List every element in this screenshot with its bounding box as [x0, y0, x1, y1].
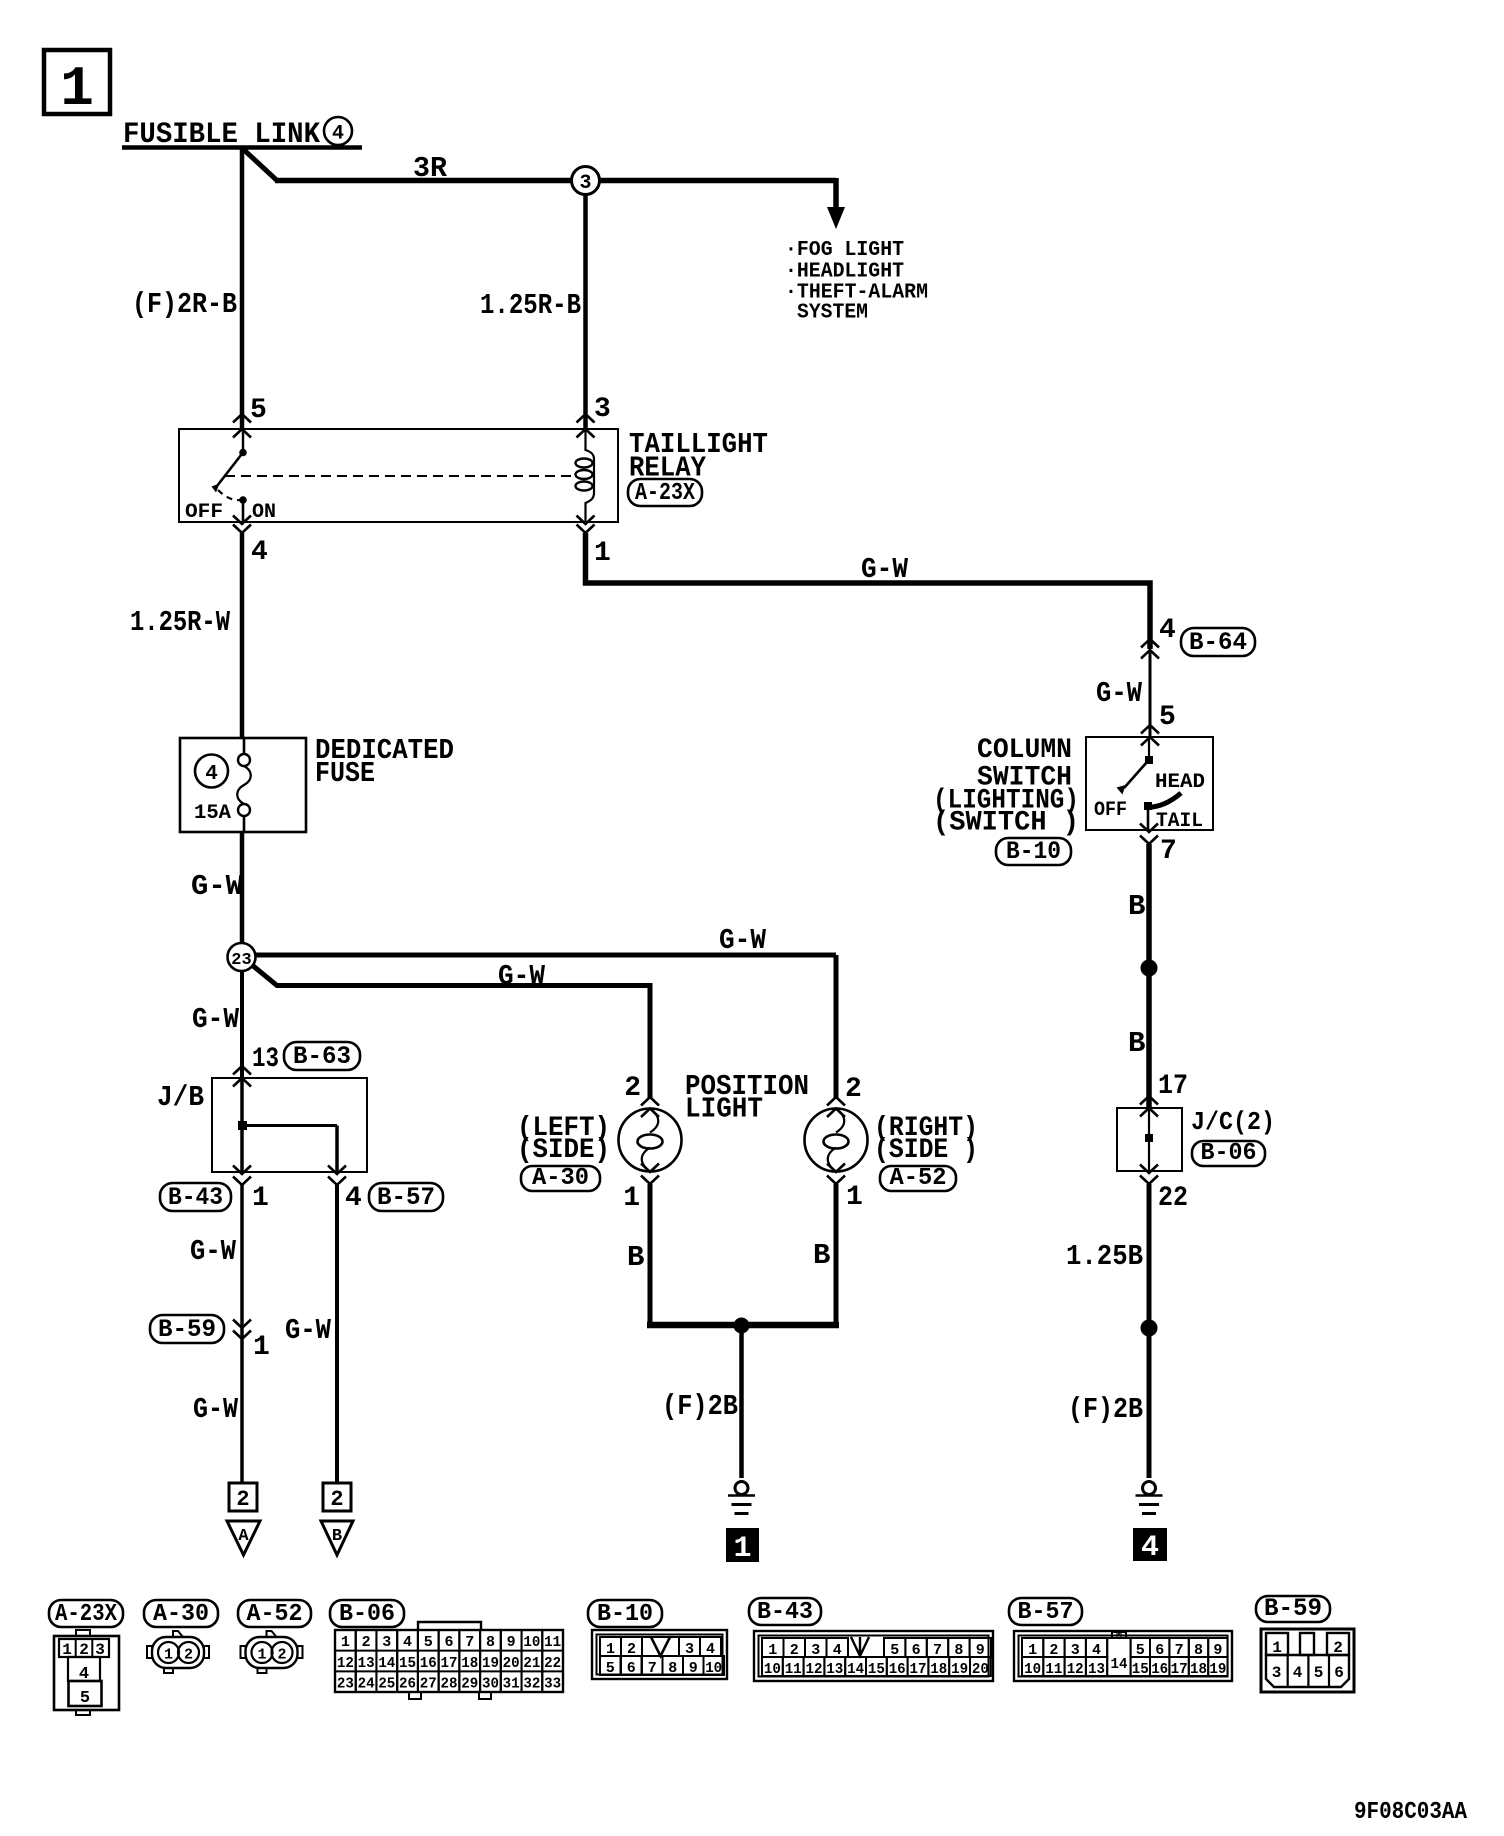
- junction connector J/C(2) box B-06: [1117, 1108, 1182, 1171]
- svg-text:B: B: [1128, 1027, 1145, 1060]
- svg-text:21: 21: [523, 1655, 540, 1672]
- wire G-W fuse to node 23: [240, 832, 245, 944]
- wire label B (upper): [1128, 890, 1145, 923]
- ground symbol (position lights): [728, 1482, 755, 1514]
- svg-text:13: 13: [826, 1661, 843, 1678]
- pin 1 label (B-43): [252, 1183, 269, 1214]
- svg-text:25: 25: [378, 1676, 395, 1693]
- wire joining lamps: [647, 1322, 839, 1329]
- pin 1 arrows (right lamp): [827, 1164, 845, 1185]
- J/B internal branch wire: [242, 1126, 337, 1173]
- svg-text:FUSE: FUSE: [315, 757, 375, 790]
- svg-text:B-06: B-06: [1201, 1140, 1257, 1167]
- ground reference box 4: [1133, 1528, 1167, 1565]
- connector pinout B-10: [592, 1630, 727, 1679]
- page marker box 1: [44, 50, 110, 121]
- svg-text:(F)2R-B: (F)2R-B: [132, 288, 237, 321]
- svg-text:5: 5: [424, 1634, 433, 1651]
- svg-text:12: 12: [337, 1655, 354, 1672]
- svg-text:16: 16: [889, 1661, 906, 1678]
- wire label G-W (right branch): [719, 924, 767, 957]
- svg-text:OFF: OFF: [185, 501, 223, 524]
- svg-text:3R: 3R: [413, 152, 448, 185]
- svg-text:13: 13: [358, 1655, 375, 1672]
- wire label G-W (pin4 wire): [285, 1314, 332, 1347]
- svg-text:4: 4: [1293, 1664, 1303, 1682]
- pin 3 arrows: [577, 414, 595, 438]
- position light bulb left A-30: [619, 1109, 682, 1172]
- svg-text:1: 1: [623, 1183, 640, 1214]
- position light bulb right A-52: [805, 1109, 868, 1172]
- column switch box B-10: [1086, 737, 1213, 830]
- svg-text:G-W: G-W: [1096, 677, 1143, 710]
- wire 1.25R-W vertical: [240, 533, 245, 739]
- svg-text:20: 20: [503, 1655, 520, 1672]
- svg-text:15: 15: [1132, 1661, 1149, 1678]
- svg-text:4: 4: [403, 1634, 412, 1651]
- pin 17 label: [1158, 1071, 1188, 1102]
- svg-text:B-59: B-59: [1264, 1594, 1322, 1623]
- wire G-W J/B to B-59: [240, 1185, 244, 1483]
- svg-text:11: 11: [785, 1661, 802, 1678]
- wire label B (right): [813, 1239, 830, 1272]
- wire label G-W (below B-43): [190, 1235, 237, 1268]
- relay coil: [576, 429, 595, 522]
- wire G-W relay pin1 to column switch: [586, 533, 1151, 649]
- column switch common dot: [1145, 756, 1153, 764]
- svg-text:13: 13: [1088, 1661, 1105, 1678]
- svg-text:(F)2B: (F)2B: [1068, 1393, 1143, 1426]
- svg-text:8: 8: [668, 1660, 677, 1677]
- svg-text:COLUMN: COLUMN: [977, 735, 1072, 766]
- wire 1.25R-B vertical: [583, 194, 588, 430]
- svg-text:8: 8: [486, 1634, 495, 1651]
- svg-text:B-43: B-43: [168, 1183, 223, 1212]
- wire G-W node 23 to J/B: [240, 971, 244, 1078]
- svg-text:1: 1: [341, 1634, 350, 1651]
- pin 1 arrows (left lamp): [641, 1164, 659, 1185]
- svg-text:1: 1: [846, 1182, 863, 1213]
- connector pinout B-06: [335, 1622, 563, 1699]
- svg-text:B-10: B-10: [1006, 837, 1061, 866]
- wire G-W to right position light: [255, 955, 836, 1098]
- wire label 3R: [413, 152, 448, 185]
- svg-text:10: 10: [523, 1634, 540, 1651]
- pin 5 label (B-10): [1159, 702, 1176, 733]
- svg-text:B-43: B-43: [757, 1599, 813, 1626]
- connector tag A-30 (legend): [144, 1600, 218, 1628]
- svg-text:(SIDE ): (SIDE ): [874, 1135, 978, 1166]
- position light heading: [685, 1070, 809, 1126]
- connector tag A-30: [521, 1165, 600, 1192]
- svg-text:2: 2: [845, 1074, 862, 1105]
- connector tag B-06 (right): [1192, 1140, 1265, 1167]
- svg-text:1: 1: [253, 1332, 270, 1363]
- node 3 junction: [572, 167, 600, 196]
- J/B internal junction dot: [238, 1121, 247, 1130]
- svg-text:4: 4: [1141, 1531, 1159, 1565]
- J/B pin 1 arrows: [233, 1166, 251, 1186]
- fusible link bus bar: [122, 145, 362, 150]
- svg-text:23: 23: [337, 1676, 354, 1693]
- J/C internal wire: [1148, 1108, 1150, 1171]
- column switch arm: [1117, 762, 1148, 795]
- svg-text:1.25R-B: 1.25R-B: [480, 289, 581, 322]
- svg-text:29: 29: [461, 1676, 478, 1693]
- svg-text:23: 23: [231, 951, 251, 970]
- svg-text:B: B: [332, 1527, 342, 1546]
- pin 4 label (B-64): [1159, 615, 1176, 646]
- svg-text:G-W: G-W: [192, 1003, 240, 1036]
- svg-text:B: B: [813, 1239, 830, 1272]
- svg-text:2: 2: [236, 1487, 249, 1512]
- pin 22 arrows: [1140, 1165, 1158, 1185]
- connector pinout A-52: [241, 1631, 303, 1673]
- wire label B (lower): [1128, 1027, 1145, 1060]
- column switch label OFF: [1094, 799, 1127, 822]
- connector tag B-57: [369, 1183, 443, 1212]
- svg-text:28: 28: [441, 1676, 458, 1693]
- svg-text:G-W: G-W: [861, 553, 909, 586]
- wire label G-W (above switch): [1096, 677, 1143, 710]
- svg-text:19: 19: [482, 1655, 499, 1672]
- svg-text:9F08C03AA: 9F08C03AA: [1354, 1799, 1468, 1826]
- svg-text:LIGHT: LIGHT: [685, 1093, 763, 1126]
- arrowhead to fog light systems: [827, 207, 845, 229]
- svg-text:30: 30: [482, 1676, 499, 1693]
- svg-text:7: 7: [1160, 836, 1177, 867]
- taillight relay label: [629, 428, 768, 485]
- svg-text:15: 15: [868, 1661, 885, 1678]
- column switch heading: [933, 735, 1079, 839]
- svg-text:·FOG LIGHT: ·FOG LIGHT: [785, 239, 904, 262]
- wire label G-W (fuse): [191, 870, 244, 903]
- wire label 1.25B: [1066, 1240, 1143, 1273]
- svg-text:A-52: A-52: [247, 1601, 303, 1628]
- svg-text:HEAD: HEAD: [1155, 771, 1205, 794]
- svg-text:6: 6: [444, 1634, 453, 1651]
- wire label (F)2B (right): [1068, 1393, 1143, 1426]
- wire (F)2R-B vertical: [240, 147, 245, 430]
- column switch HEAD-TAIL arc: [1147, 793, 1181, 808]
- J/B pin 4 arrows: [328, 1166, 346, 1186]
- pin 4 arrows: [233, 516, 251, 534]
- pin 2 label (right lamp): [845, 1074, 862, 1105]
- svg-text:A-30: A-30: [153, 1601, 209, 1628]
- dedicated fuse box: [180, 738, 306, 832]
- svg-text:19: 19: [951, 1661, 968, 1678]
- connector pinout B-43: [754, 1631, 993, 1681]
- J/C internal dot: [1145, 1134, 1153, 1142]
- wire B left lamp: [648, 1184, 653, 1327]
- svg-text:17: 17: [441, 1655, 458, 1672]
- svg-text:10: 10: [705, 1660, 722, 1677]
- svg-text:A-23X: A-23X: [55, 1601, 118, 1628]
- svg-text:4: 4: [1159, 615, 1176, 646]
- svg-text:1: 1: [164, 1647, 173, 1664]
- svg-text:1: 1: [257, 1647, 266, 1664]
- pin 13 label: [252, 1044, 279, 1075]
- taillight relay box A-23X: [179, 429, 618, 522]
- svg-text:5: 5: [80, 1689, 90, 1708]
- pin 13 arrows: [233, 1066, 251, 1087]
- connector tag B-59 (legend): [1256, 1594, 1330, 1623]
- svg-text:1.25R-W: 1.25R-W: [130, 606, 230, 639]
- fuse number circle 4: [195, 755, 228, 788]
- svg-text:27: 27: [420, 1676, 437, 1693]
- svg-text:SYSTEM: SYSTEM: [797, 302, 868, 325]
- wire label G-W (above terminal A): [193, 1393, 239, 1426]
- svg-text:4: 4: [251, 537, 268, 568]
- svg-text:5: 5: [1314, 1664, 1324, 1682]
- B-59 arrows: [233, 1320, 251, 1340]
- svg-text:13: 13: [252, 1044, 279, 1075]
- connector tag A-23X (legend): [49, 1600, 123, 1628]
- svg-text:(SIDE): (SIDE): [517, 1135, 610, 1166]
- svg-text:31: 31: [503, 1676, 520, 1693]
- relay ON contact dot: [239, 496, 247, 504]
- svg-text:19: 19: [1209, 1661, 1226, 1678]
- pin 2 label (left lamp): [624, 1073, 641, 1104]
- wire G-W J/B pin4 down: [335, 1185, 339, 1483]
- svg-text:11: 11: [544, 1634, 561, 1651]
- svg-text:2: 2: [362, 1634, 371, 1651]
- svg-text:A-30: A-30: [532, 1165, 589, 1192]
- connector tag B-59: [150, 1315, 224, 1344]
- pin 4 arrows (B-64): [1141, 639, 1159, 659]
- svg-text:G-W: G-W: [285, 1314, 332, 1347]
- svg-text:G-W: G-W: [498, 960, 546, 993]
- connector pinout B-59: [1261, 1629, 1354, 1692]
- wire to fog light systems: [833, 178, 839, 211]
- pin 4 label (B-57): [345, 1183, 362, 1214]
- svg-text:18: 18: [461, 1655, 478, 1672]
- fusible link 4 label: [123, 117, 352, 152]
- J/C(2) label: [1191, 1107, 1275, 1137]
- pin 5 arrows (B-10): [1141, 725, 1159, 746]
- fog light / headlight / theft-alarm list: [785, 239, 928, 325]
- svg-text:2: 2: [277, 1647, 286, 1664]
- svg-text:22: 22: [544, 1655, 561, 1672]
- connector tag B-43: [160, 1183, 231, 1212]
- connector tag B-06 (legend): [330, 1600, 404, 1628]
- lamp ground junction dot: [734, 1318, 750, 1334]
- connector tag A-52 (legend): [238, 1600, 311, 1628]
- svg-text:6: 6: [627, 1660, 636, 1677]
- pin 22 label: [1158, 1183, 1188, 1214]
- column switch label TAIL: [1156, 810, 1203, 833]
- pin 2 arrows (left lamp): [641, 1097, 659, 1117]
- svg-text:12: 12: [806, 1661, 823, 1678]
- connector tag B-57 (legend): [1009, 1598, 1082, 1626]
- connector tag B-43 (legend): [749, 1598, 821, 1626]
- connector tag B-10: [996, 837, 1071, 866]
- ground triangle B: [321, 1521, 353, 1555]
- pin 3 label: [594, 394, 611, 425]
- svg-text:3: 3: [382, 1634, 391, 1651]
- pin 17 arrows: [1140, 1096, 1158, 1117]
- svg-text:15: 15: [399, 1655, 416, 1672]
- wire B switch to J/C: [1146, 844, 1152, 1108]
- connector tag B-10 (legend): [588, 1600, 662, 1628]
- svg-text:A-52: A-52: [890, 1165, 947, 1192]
- svg-text:1: 1: [594, 538, 611, 569]
- svg-text:A: A: [238, 1527, 249, 1546]
- wire B junction dot: [1141, 960, 1158, 977]
- relay pin5 internal wire: [242, 429, 244, 452]
- svg-text:2: 2: [330, 1487, 343, 1512]
- svg-text:7: 7: [465, 1634, 474, 1651]
- svg-text:9: 9: [507, 1634, 516, 1651]
- svg-text:4: 4: [205, 763, 218, 786]
- ground symbol (column switch circuit): [1136, 1482, 1163, 1514]
- svg-text:(F)2B: (F)2B: [662, 1390, 738, 1423]
- relay switch dashed throw: [218, 490, 240, 500]
- left lamp label: [517, 1113, 610, 1166]
- pin 1 label: [594, 538, 611, 569]
- pin 1 label (B-59): [253, 1332, 270, 1363]
- svg-text:15A: 15A: [194, 802, 231, 825]
- connector pinout A-30: [147, 1631, 209, 1673]
- pin 1 label (left lamp): [623, 1183, 640, 1214]
- svg-text:1: 1: [60, 57, 94, 121]
- svg-text:11: 11: [1045, 1661, 1062, 1678]
- wire label 1.25R-B: [480, 289, 581, 322]
- svg-text:5: 5: [1159, 702, 1176, 733]
- pin 5 label: [250, 395, 267, 426]
- svg-text:G-W: G-W: [719, 924, 767, 957]
- svg-text:14: 14: [1111, 1656, 1128, 1673]
- svg-text:18: 18: [930, 1661, 947, 1678]
- svg-text:B-59: B-59: [158, 1315, 216, 1344]
- svg-text:20: 20: [972, 1661, 989, 1678]
- svg-text:1: 1: [733, 1532, 751, 1566]
- pin 2 arrows (right lamp): [827, 1097, 845, 1117]
- relay ON wire to pin 4: [242, 500, 245, 522]
- wire label B (left): [627, 1241, 644, 1274]
- svg-text:9: 9: [689, 1660, 698, 1677]
- svg-text:OFF: OFF: [1094, 799, 1127, 822]
- relay label ON: [252, 501, 276, 524]
- svg-text:7: 7: [648, 1660, 657, 1677]
- svg-text:2: 2: [184, 1647, 193, 1664]
- dedicated fuse label: [315, 734, 454, 790]
- pin 1 label (right lamp): [846, 1182, 863, 1213]
- wire B junction dot 2: [1141, 1320, 1158, 1337]
- svg-text:B-06: B-06: [339, 1601, 395, 1628]
- svg-text:A-23X: A-23X: [635, 480, 695, 507]
- svg-text:3: 3: [594, 394, 611, 425]
- wire through J/B: [240, 1078, 244, 1172]
- right lamp label: [874, 1113, 978, 1166]
- wire label G-W (relay to switch): [861, 553, 909, 586]
- svg-text:16: 16: [420, 1655, 437, 1672]
- svg-text:26: 26: [399, 1676, 416, 1693]
- svg-text:3: 3: [579, 172, 591, 195]
- svg-text:12: 12: [1067, 1661, 1084, 1678]
- svg-text:33: 33: [544, 1676, 561, 1693]
- svg-text:10: 10: [764, 1661, 781, 1678]
- wire B right lamp: [834, 1184, 839, 1327]
- svg-text:5: 5: [250, 395, 267, 426]
- pin 1 arrows: [577, 516, 595, 534]
- drawing number 9F08C03AA: [1354, 1799, 1468, 1826]
- ground triangle A: [227, 1521, 260, 1555]
- wire label (F)2R-B: [132, 288, 237, 321]
- svg-text:M: M: [1116, 1630, 1122, 1641]
- svg-text:2: 2: [624, 1073, 641, 1104]
- relay switch common dot: [239, 449, 247, 457]
- svg-text:B-10: B-10: [597, 1601, 653, 1628]
- svg-text:B-57: B-57: [1018, 1599, 1074, 1626]
- svg-text:14: 14: [378, 1655, 395, 1672]
- svg-text:B: B: [627, 1241, 644, 1274]
- junction block label J/B: [157, 1081, 204, 1114]
- pin 4 label: [251, 537, 268, 568]
- svg-text:18: 18: [1190, 1661, 1207, 1678]
- connector tag A-23X: [628, 479, 702, 507]
- column switch input wire: [1148, 737, 1150, 758]
- pin 7 label: [1160, 836, 1177, 867]
- connector tag B-63: [284, 1042, 360, 1071]
- svg-text:1: 1: [252, 1183, 269, 1214]
- wire label G-W (left branch): [498, 960, 546, 993]
- fuse rating label 15A: [194, 802, 231, 825]
- svg-text:4: 4: [345, 1183, 362, 1214]
- wire label (F)2B (left): [662, 1390, 738, 1423]
- wire (F)2B to ground left: [739, 1325, 744, 1478]
- ground reference box 1: [726, 1528, 759, 1566]
- svg-text:B-64: B-64: [1189, 628, 1247, 657]
- svg-text:1.25B: 1.25B: [1066, 1240, 1143, 1273]
- junction block J/B box: [212, 1078, 367, 1172]
- wire 1.25B to ground: [1147, 1184, 1152, 1478]
- column switch label HEAD: [1155, 771, 1205, 794]
- wire label G-W (to J/B): [192, 1003, 240, 1036]
- svg-text:TAIL: TAIL: [1156, 810, 1203, 833]
- svg-text:·HEADLIGHT: ·HEADLIGHT: [785, 261, 904, 284]
- connector pinout A-23X: [54, 1630, 119, 1715]
- svg-text:B-57: B-57: [377, 1183, 435, 1212]
- svg-text:J/B: J/B: [157, 1081, 204, 1114]
- svg-text:G-W: G-W: [190, 1235, 237, 1268]
- connector pinout B-57: [1014, 1630, 1232, 1681]
- pin 5 arrows: [233, 414, 251, 438]
- fuse element: [237, 738, 251, 832]
- svg-text:3: 3: [1272, 1664, 1282, 1682]
- svg-text:10: 10: [1024, 1661, 1041, 1678]
- svg-text:14: 14: [847, 1661, 864, 1678]
- column switch output wire: [1147, 806, 1150, 830]
- wire 3R horizontal: [275, 178, 836, 184]
- svg-text:6: 6: [1334, 1664, 1344, 1682]
- svg-text:J/C(2): J/C(2): [1191, 1107, 1275, 1137]
- svg-text:17: 17: [910, 1661, 927, 1678]
- svg-text:ON: ON: [252, 501, 276, 524]
- svg-text:17: 17: [1158, 1071, 1188, 1102]
- wire 3R diagonal: [243, 149, 277, 181]
- svg-text:22: 22: [1158, 1183, 1188, 1214]
- svg-text:17: 17: [1171, 1661, 1188, 1678]
- terminal 2 (B): [323, 1483, 351, 1512]
- svg-text:16: 16: [1151, 1661, 1168, 1678]
- svg-text:G-W: G-W: [191, 870, 244, 903]
- connector tag A-52: [880, 1165, 956, 1192]
- pin 7 arrows: [1140, 824, 1158, 845]
- relay switch arm: [212, 453, 244, 493]
- column switch TAIL contact dot: [1144, 802, 1152, 810]
- connector tag B-64: [1181, 628, 1255, 657]
